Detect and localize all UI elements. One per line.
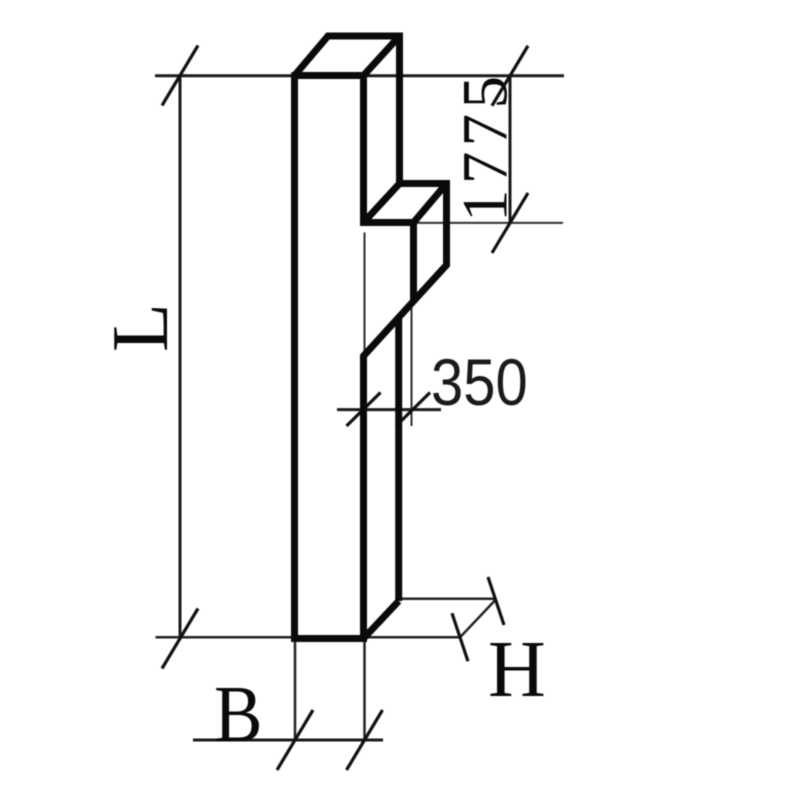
tick at H bottom (460,638.5) (452, 613, 468, 661)
wire: right vertical dimension line (1775) x=509 (509, 76, 512, 223)
tick at B right (364.5,740) (347, 710, 383, 770)
corbel top-left depth edge (364, 184, 400, 223)
wire: top dimension line y=75.5 (155, 74, 564, 77)
column front top edge (291, 72, 367, 79)
wire: H oblique dimension line (460, 599, 496, 637)
wire: left vertical dimension line (L) x=180 (179, 76, 182, 639)
wire: 350 dimension line y=410 (337, 408, 441, 411)
column bottom-right depth edge (364, 601, 399, 639)
wire: bottom dimension line y=638.5 (156, 636, 461, 639)
wire: 350 right extension line x=413 (411, 308, 413, 426)
corbel front right edge (410, 219, 417, 300)
wire: back bottom extension line y=600.5 (400, 598, 496, 601)
corbel top-right depth edge (414, 184, 447, 223)
wire: B dimension line y=740 (193, 739, 383, 742)
column top-right depth edge (364, 36, 400, 76)
column and corbel silhouette outline (295, 36, 447, 639)
svg-text:H: H (488, 626, 546, 714)
wire: B left extension line x=295 (294, 641, 297, 740)
wire: 350 left extension line x=364.5 (364, 233, 366, 358)
tick at B left (295,740) (277, 710, 313, 770)
tick at L bottom (180,638.5) (162, 609, 198, 669)
tick at L top (180,75.5) (162, 46, 198, 106)
tick at 350 right (413,410) (396, 393, 430, 427)
tick at 350 left (363.5,410) (347, 393, 381, 427)
svg-text:B: B (214, 670, 263, 759)
tick at H top (496,600.5) (488, 577, 504, 625)
svg-text:L: L (97, 303, 185, 352)
wire: B right extension line x=364.5 (363, 641, 366, 740)
wire: extension line at corbel top y=222.9 (414, 222, 564, 224)
column back-right edge lower (395, 317, 402, 601)
tick at 1775 top (509,75.5) (492, 46, 528, 106)
svg-text:350: 350 (431, 347, 528, 420)
corbel top front edge (360, 219, 417, 226)
tick at 1775 bottom (509,222.9) (492, 193, 528, 253)
column front-right edge upper (360, 72, 367, 226)
